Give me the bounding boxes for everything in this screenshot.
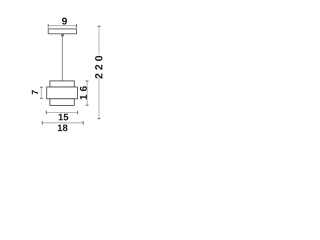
label 7 (rotated, middle band height) bbox=[32, 90, 38, 94]
dimension line 220 lower segment bbox=[98, 77, 100, 119]
canopy (ceiling mount) bbox=[48, 29, 76, 34]
dimension line 16 (vertical, right of shade) bbox=[86, 81, 88, 105]
dimension line 220 upper segment (vertical, far right) bbox=[98, 26, 100, 54]
dimension line 7 (vertical, left of shade) bbox=[40, 87, 42, 98]
label 16 (rotated, shade height) bbox=[80, 86, 87, 99]
top tick of 220-dim bbox=[98, 25, 101, 27]
cord wire bbox=[61, 36, 63, 81]
dimension line 18 (horizontal, bottom) bbox=[42, 122, 83, 124]
right tick of 9-dim bbox=[76, 24, 78, 28]
top tick of 16-dim bbox=[86, 80, 89, 82]
shade top ring bbox=[50, 81, 74, 87]
dimension line 15 (horizontal, below shade) bbox=[46, 111, 77, 113]
top tick of 7-dim bbox=[40, 86, 43, 88]
left tick of 18-dim bbox=[41, 121, 43, 125]
left tick of 15-dim bbox=[45, 111, 47, 115]
shade middle band bbox=[47, 87, 78, 99]
bottom tick of 7-dim bbox=[40, 97, 43, 99]
bottom tick of 220-dim bbox=[98, 118, 101, 120]
label 9 (canopy width) bbox=[62, 18, 67, 25]
cord nub below canopy bbox=[61, 34, 64, 37]
label 15 (shade diameter) bbox=[59, 114, 69, 121]
right tick of 18-dim bbox=[82, 121, 84, 125]
bottom tick of 16-dim bbox=[86, 104, 89, 106]
dimension line 9 (horizontal) bbox=[48, 25, 76, 27]
shade bottom ring bbox=[50, 99, 74, 106]
label 220 (rotated, overall height) bbox=[95, 56, 102, 79]
right tick of 15-dim bbox=[77, 111, 79, 115]
left tick of 9-dim bbox=[47, 24, 49, 28]
label 18 (fixture max width) bbox=[58, 124, 68, 131]
